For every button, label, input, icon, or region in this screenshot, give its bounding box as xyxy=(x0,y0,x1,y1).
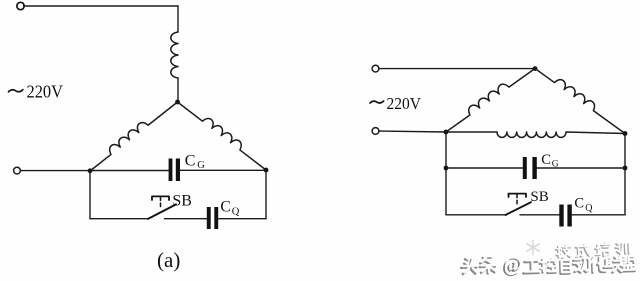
wire left vertical xyxy=(89,171,91,219)
wire terminal to corner xyxy=(379,131,446,132)
wire top horizontal xyxy=(24,5,178,7)
wire CG rail right xyxy=(180,169,266,171)
capacitor CQ plates xyxy=(207,207,218,229)
wire bottom rail left xyxy=(90,218,148,220)
wire coil to apex xyxy=(177,78,179,102)
capacitor CG plates xyxy=(169,159,180,182)
svg-text:C: C xyxy=(220,198,230,215)
capacitor CG2 plates xyxy=(523,157,537,179)
watermark text 头条@工控自动化联盟 xyxy=(461,249,637,278)
svg-text:Q: Q xyxy=(232,207,240,218)
svg-text:220V: 220V xyxy=(27,81,64,101)
watermark text 技成培训 xyxy=(555,241,629,259)
node apex left circuit xyxy=(175,100,180,105)
node right circuit left corner xyxy=(444,130,449,135)
terminal right-top xyxy=(372,65,379,72)
svg-text:C: C xyxy=(574,196,584,212)
label ~220V right xyxy=(370,101,384,103)
label CG2 xyxy=(541,152,559,170)
svg-text:SB: SB xyxy=(172,192,192,209)
terminal left-bottom xyxy=(14,167,21,174)
node right corner xyxy=(264,168,269,173)
svg-text:C: C xyxy=(541,152,551,168)
wire CG rail left right-circuit xyxy=(446,167,523,169)
wire right circuit left vertical xyxy=(445,132,447,215)
svg-text:SB: SB xyxy=(530,189,548,205)
wire bottom rail middle xyxy=(165,218,207,220)
node CG rail right xyxy=(623,166,628,171)
svg-text:G: G xyxy=(197,160,205,171)
node CG rail left xyxy=(444,166,449,171)
wire top vertical xyxy=(177,6,179,32)
switch SB actuator bar xyxy=(152,196,169,200)
label CG xyxy=(185,152,206,171)
label ~220V left xyxy=(9,90,23,92)
wire terminal to apex xyxy=(379,68,535,70)
terminal left-top xyxy=(17,2,24,9)
terminal right-bottom xyxy=(372,128,379,135)
label CQ2 xyxy=(574,196,593,214)
node right circuit right corner xyxy=(623,131,628,136)
watermark snowflake icon xyxy=(527,240,540,254)
wire terminal to left corner xyxy=(21,170,90,172)
inductor winding left slant L4 xyxy=(442,63,535,132)
switch SB2 actuator bar xyxy=(509,194,527,197)
svg-text:(a): (a) xyxy=(157,248,180,272)
inductor winding right slant L3 xyxy=(178,97,271,170)
label CQ xyxy=(220,198,239,217)
node left corner xyxy=(88,168,93,173)
node apex right circuit xyxy=(533,66,538,71)
switch SB2 actuator stem xyxy=(516,194,518,204)
wire bottom rail right xyxy=(218,218,266,220)
capacitor CQ2 plates xyxy=(559,205,572,227)
wire CG rail right right-circuit xyxy=(537,167,625,169)
wire right vertical xyxy=(265,170,267,219)
inductor winding left slant L2 xyxy=(86,97,178,171)
svg-text:Q: Q xyxy=(585,203,593,214)
wire CG rail left xyxy=(90,170,169,172)
switch SB2 blade xyxy=(506,202,532,215)
wire right circuit right vertical xyxy=(624,134,626,215)
switch SB blade xyxy=(148,204,176,219)
wire bottom rail middle right-circuit xyxy=(520,214,559,216)
inductor winding bottom L6 xyxy=(446,132,625,137)
wire bottom rail right right-circuit xyxy=(572,214,625,216)
svg-text:@: @ xyxy=(504,253,524,276)
svg-text:C: C xyxy=(185,152,196,169)
inductor winding right slant L5 xyxy=(535,63,629,133)
switch SB actuator stem xyxy=(160,197,162,207)
wire bottom rail left right-circuit xyxy=(446,214,506,216)
svg-text:G: G xyxy=(552,159,559,169)
svg-text:220V: 220V xyxy=(387,94,422,113)
inductor winding vertical L1 xyxy=(171,32,178,78)
